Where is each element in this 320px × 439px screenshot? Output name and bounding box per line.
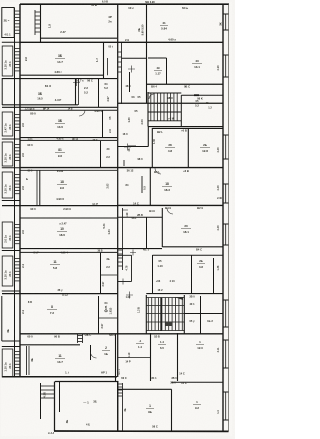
room H3 wall: [191, 255, 193, 293]
stairwell st2 right rail: [183, 295, 185, 334]
left wall window hatch y222: [15, 225, 21, 244]
stairwell st2 left rail: [145, 295, 147, 334]
small rooms mid divider: [101, 274, 118, 276]
bottom step upper wall: [55, 381, 118, 383]
left stub wall y168: [2, 167, 20, 169]
corridor wall x146 band B: [146, 43, 148, 103]
balcony y349: [2, 349, 13, 377]
band F top second line: [20, 169, 117, 171]
scan background: [0, 0, 235, 439]
left wall window hatch y142: [15, 145, 21, 161]
door arc room F2: [155, 168, 161, 174]
right of st2 room walls: [200, 296, 202, 334]
window right wall band B: [223, 54, 229, 56]
stairwell st1 bottom wall: [148, 126, 223, 128]
window right wall band K: [223, 391, 229, 393]
room G2 left wall: [161, 208, 163, 247]
left stub wall y290: [2, 290, 20, 292]
step window outer line: [40, 383, 42, 419]
left wall window hatch y256: [15, 259, 21, 281]
room F2 left wall: [149, 168, 151, 206]
corridor band right wall: [118, 102, 223, 104]
room D3 divider wall: [187, 128, 189, 168]
band A/B wall: [20, 41, 223, 43]
room K3 top wall: [172, 381, 224, 383]
left wall window hatch y112: [15, 115, 21, 131]
band D/E second wall: [20, 139, 117, 141]
center spine wall lower: [117, 381, 119, 431]
spine lower ladder second line: [122, 383, 124, 431]
bath block walls band H mid: [118, 254, 132, 256]
room D2 left wall: [151, 128, 153, 168]
stairwell st2 elevator box: [166, 322, 173, 327]
band A separator double wall bottom: [40, 37, 117, 39]
room B1 bottom wall: [20, 74, 104, 76]
stairwell st1 mid rail: [148, 111, 181, 113]
room J2 door stub: [90, 345, 92, 360]
small wall mid band F: [141, 176, 143, 193]
room C1 left edge: [1, 78, 3, 105]
room F2 bottom wall: [118, 204, 223, 206]
bath block left wall: [180, 95, 182, 126]
center spine second line mid: [122, 208, 124, 270]
bath block top wall right of stairs: [181, 94, 223, 96]
room D2 top wall: [152, 127, 223, 129]
outer right wall inner line: [222, 4, 224, 432]
center spine wall upper: [117, 4, 119, 377]
room C1 right double wall: [75, 79, 77, 105]
band C/D double wall: [2, 106, 117, 108]
balcony y256: [2, 256, 13, 286]
room A2 right wall: [146, 4, 148, 44]
room K2 left wall lower: [117, 381, 119, 431]
window right wall band A: [223, 13, 229, 15]
door arc room J2: [91, 352, 97, 358]
small rooms divider band I: [99, 317, 118, 319]
plus mark under B1: [73, 79, 80, 86]
left stub wall y250: [2, 250, 20, 252]
room J1 top wall: [20, 344, 80, 346]
left stub wall y139: [2, 138, 20, 140]
band I/J wall: [20, 333, 223, 335]
room J1 closet double line: [26, 346, 28, 375]
room I1 small rooms wall: [98, 296, 100, 334]
corridor wall below stair: [147, 127, 149, 147]
room A1 left wall with closet: [40, 4, 42, 42]
corridor wall y58 center: [122, 57, 147, 59]
corridor wall horizontal to spine: [118, 146, 149, 148]
band G small rooms divider: [146, 217, 148, 248]
room J1 window symbol: [77, 334, 79, 343]
room H4 divider wall: [213, 258, 215, 293]
left stub wall y42: [2, 41, 20, 43]
window right wall band J: [223, 339, 229, 341]
room J2 right wall: [115, 334, 117, 381]
stairwell st1 low rail: [148, 120, 181, 122]
room H1 small rooms right wall: [100, 253, 102, 294]
room E1 right small wall: [100, 141, 102, 167]
band H/I wall left: [2, 293, 118, 295]
window right wall band I: [223, 299, 229, 301]
room J4 inner wall: [118, 357, 151, 359]
bath door blob: [194, 94, 199, 96]
band G top wall left: [2, 205, 118, 207]
door arc room D1: [79, 110, 85, 116]
room C1 top wall: [2, 78, 117, 80]
door marks center: [128, 145, 136, 147]
center spine wall second line upper: [121, 42, 123, 104]
stairwell st2 entry arrow: [174, 297, 183, 300]
center spine hatch upper: [118, 52, 122, 72]
room C2 walls: [98, 79, 100, 107]
outer left wall outer line: [14, 8, 16, 377]
room I1 left bottom wall: [2, 340, 20, 342]
room I1 left edge wall: [1, 296, 3, 341]
balcony y46: [2, 46, 13, 76]
left wall window hatch y172: [15, 175, 21, 194]
band D small rooms wall: [102, 110, 104, 138]
left wall window hatch y46: [15, 49, 21, 71]
door mark band H: [126, 292, 133, 299]
outer top wall: [20, 3, 229, 5]
band G room top wall: [20, 217, 117, 219]
room G2 bottom wall: [162, 246, 223, 248]
balcony A top band: [2, 8, 14, 38]
room K2 top wall: [118, 388, 172, 390]
door mark corridor top: [128, 66, 135, 73]
room B2 bottom wall: [147, 83, 224, 85]
balcony y222: [2, 222, 13, 248]
bath wall x129 band B: [129, 72, 131, 92]
outer left wall inner line: [19, 4, 21, 377]
room K2/K3 divider wall: [171, 389, 173, 431]
center spine hatch mid: [118, 250, 123, 266]
stairwell st1 treads: [151, 94, 177, 121]
balcony y172: [2, 172, 13, 198]
left wall window hatch balcony A: [15, 11, 21, 33]
step inner double wall: [59, 382, 61, 412]
stairwell st2 treads: [148, 298, 182, 331]
door mark band D: [124, 144, 131, 151]
room B1 right wall: [103, 43, 105, 78]
step left wall: [54, 382, 56, 432]
room B3 small walls: [166, 58, 168, 84]
left stub wall y200: [2, 200, 20, 202]
stairwell st1 box: [147, 92, 149, 127]
room H2 walls: [152, 255, 154, 293]
band H/I wall right: [146, 293, 223, 295]
door arc room G2: [167, 208, 173, 214]
room C1 bottom wall: [2, 104, 78, 106]
window right wall band F: [223, 183, 229, 185]
scan grain overlay: [0, 0, 1, 1]
closet hatch room A1: [35, 12, 41, 32]
stairwell st2 horizontal rails: [146, 297, 184, 299]
room F1 closet wall: [39, 170, 41, 205]
outer bottom wall: [54, 430, 229, 432]
stairwell st2 mid vertical rail: [160, 298, 162, 332]
left stub wall y346: [2, 346, 20, 348]
step window hatch: [41, 386, 55, 398]
room D1 bottom wall: [20, 137, 117, 139]
outer right wall outer line: [228, 4, 230, 432]
balcony y112: [2, 112, 13, 136]
spine lower ladder rungs: [118, 384, 123, 396]
balcony y142: [2, 142, 13, 166]
band J mid rooms walls: [150, 333, 152, 381]
door mark band F mid: [122, 209, 128, 211]
band E/F wall: [20, 167, 223, 169]
stairwell st1 door arc: [149, 94, 154, 99]
room G1 bottom wall: [20, 248, 162, 250]
bottom-left step wall horizontal: [2, 376, 117, 378]
bath door plus marks: [120, 250, 136, 285]
left wall window hatch y349: [15, 352, 21, 374]
band H top second line: [20, 251, 117, 253]
stairwell st1 top rail: [148, 92, 181, 94]
plan paper area: [1, 2, 232, 436]
window right wall band G: [223, 223, 229, 225]
window right wall band D: [223, 134, 229, 136]
